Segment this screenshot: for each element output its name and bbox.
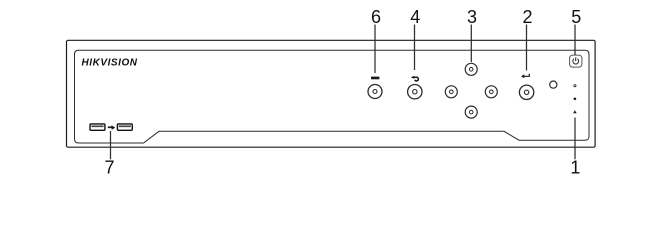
svg-text:7: 7 bbox=[104, 158, 114, 178]
callout 7 bbox=[104, 131, 114, 178]
status indicator dot bbox=[574, 98, 577, 101]
button 6 MENU bbox=[368, 85, 382, 99]
svg-text:5: 5 bbox=[571, 7, 581, 27]
button 2 ENTER bbox=[519, 85, 533, 99]
svg-text:3: 3 bbox=[467, 7, 477, 27]
enter icon bbox=[521, 74, 529, 79]
status indicator triangle bbox=[573, 110, 577, 113]
USB port left bbox=[90, 124, 105, 130]
callout 2 bbox=[522, 7, 532, 71]
callout 3 bbox=[467, 7, 477, 62]
power button bbox=[570, 55, 582, 67]
d-pad left button bbox=[445, 86, 457, 98]
svg-text:6: 6 bbox=[371, 7, 381, 27]
callout 6 bbox=[371, 7, 381, 73]
svg-text:HIKVISION: HIKVISION bbox=[82, 58, 138, 69]
status indicator ring bbox=[574, 85, 576, 87]
svg-text:2: 2 bbox=[522, 7, 532, 27]
panel faceplate bbox=[75, 50, 590, 143]
d-pad down button bbox=[465, 106, 477, 118]
svg-text:1: 1 bbox=[570, 158, 580, 178]
menu icon bbox=[371, 77, 379, 80]
panel outer frame bbox=[67, 40, 596, 147]
IR receiver bbox=[550, 81, 557, 88]
d-pad right button bbox=[485, 86, 497, 98]
svg-text:4: 4 bbox=[410, 7, 420, 27]
callout 1 bbox=[570, 118, 580, 178]
esc icon bbox=[411, 76, 418, 81]
USB port right bbox=[117, 124, 132, 130]
callout 5 bbox=[571, 7, 581, 55]
d-pad up button bbox=[465, 63, 477, 75]
button 4 ESC bbox=[408, 85, 422, 99]
callout 4 bbox=[410, 7, 420, 70]
USB symbol bbox=[108, 125, 116, 130]
